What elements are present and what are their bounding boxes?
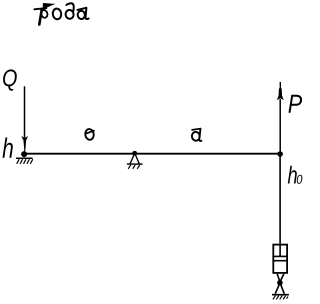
valve seat X-link upper legs	[277, 274, 284, 282]
middle pivot support: triangle legs	[127, 156, 143, 165]
force arrow P: head tip	[279, 82, 281, 89]
label в (beam segment)	[85, 128, 95, 140]
bottom ground hatching	[273, 296, 288, 300]
beam (horizontal lever)	[22, 153, 280, 155]
label P	[289, 95, 303, 113]
left support hatching	[17, 159, 33, 164]
force arrow P: head body	[279, 88, 283, 97]
word Вода: letter д	[65, 3, 74, 19]
label h	[3, 138, 13, 158]
valve seat pivot blob	[277, 280, 283, 286]
force arrow P: line	[279, 99, 281, 154]
label h0: subscript 0	[297, 175, 303, 184]
force arrow P: head barbs	[277, 96, 284, 100]
piston line 1	[272, 255, 288, 257]
node: left beam end dot	[21, 151, 27, 157]
label Q	[3, 69, 17, 90]
valve rod (vertical link)	[279, 154, 281, 256]
valve body rectangle	[273, 245, 287, 273]
middle support hatching	[128, 165, 140, 169]
force arrow Q: head body	[23, 139, 26, 151]
valve seat X-link lower legs	[275, 283, 284, 294]
word Вода: letter о	[52, 8, 62, 20]
left support ground line	[16, 157, 33, 159]
bottom ground line	[272, 294, 289, 296]
force arrow Q: line	[24, 86, 26, 137]
label h0: letter h	[288, 166, 297, 184]
middle pivot support: ball	[132, 151, 137, 156]
node: right beam end dot	[277, 151, 283, 157]
force arrow Q: head barbs	[21, 136, 28, 140]
label a (beam segment)	[191, 129, 201, 141]
word Вода: letter а	[77, 8, 88, 20]
word Вода: letter В (stylized, with flourish wedge)	[34, 3, 55, 25]
piston line 2	[272, 260, 288, 262]
